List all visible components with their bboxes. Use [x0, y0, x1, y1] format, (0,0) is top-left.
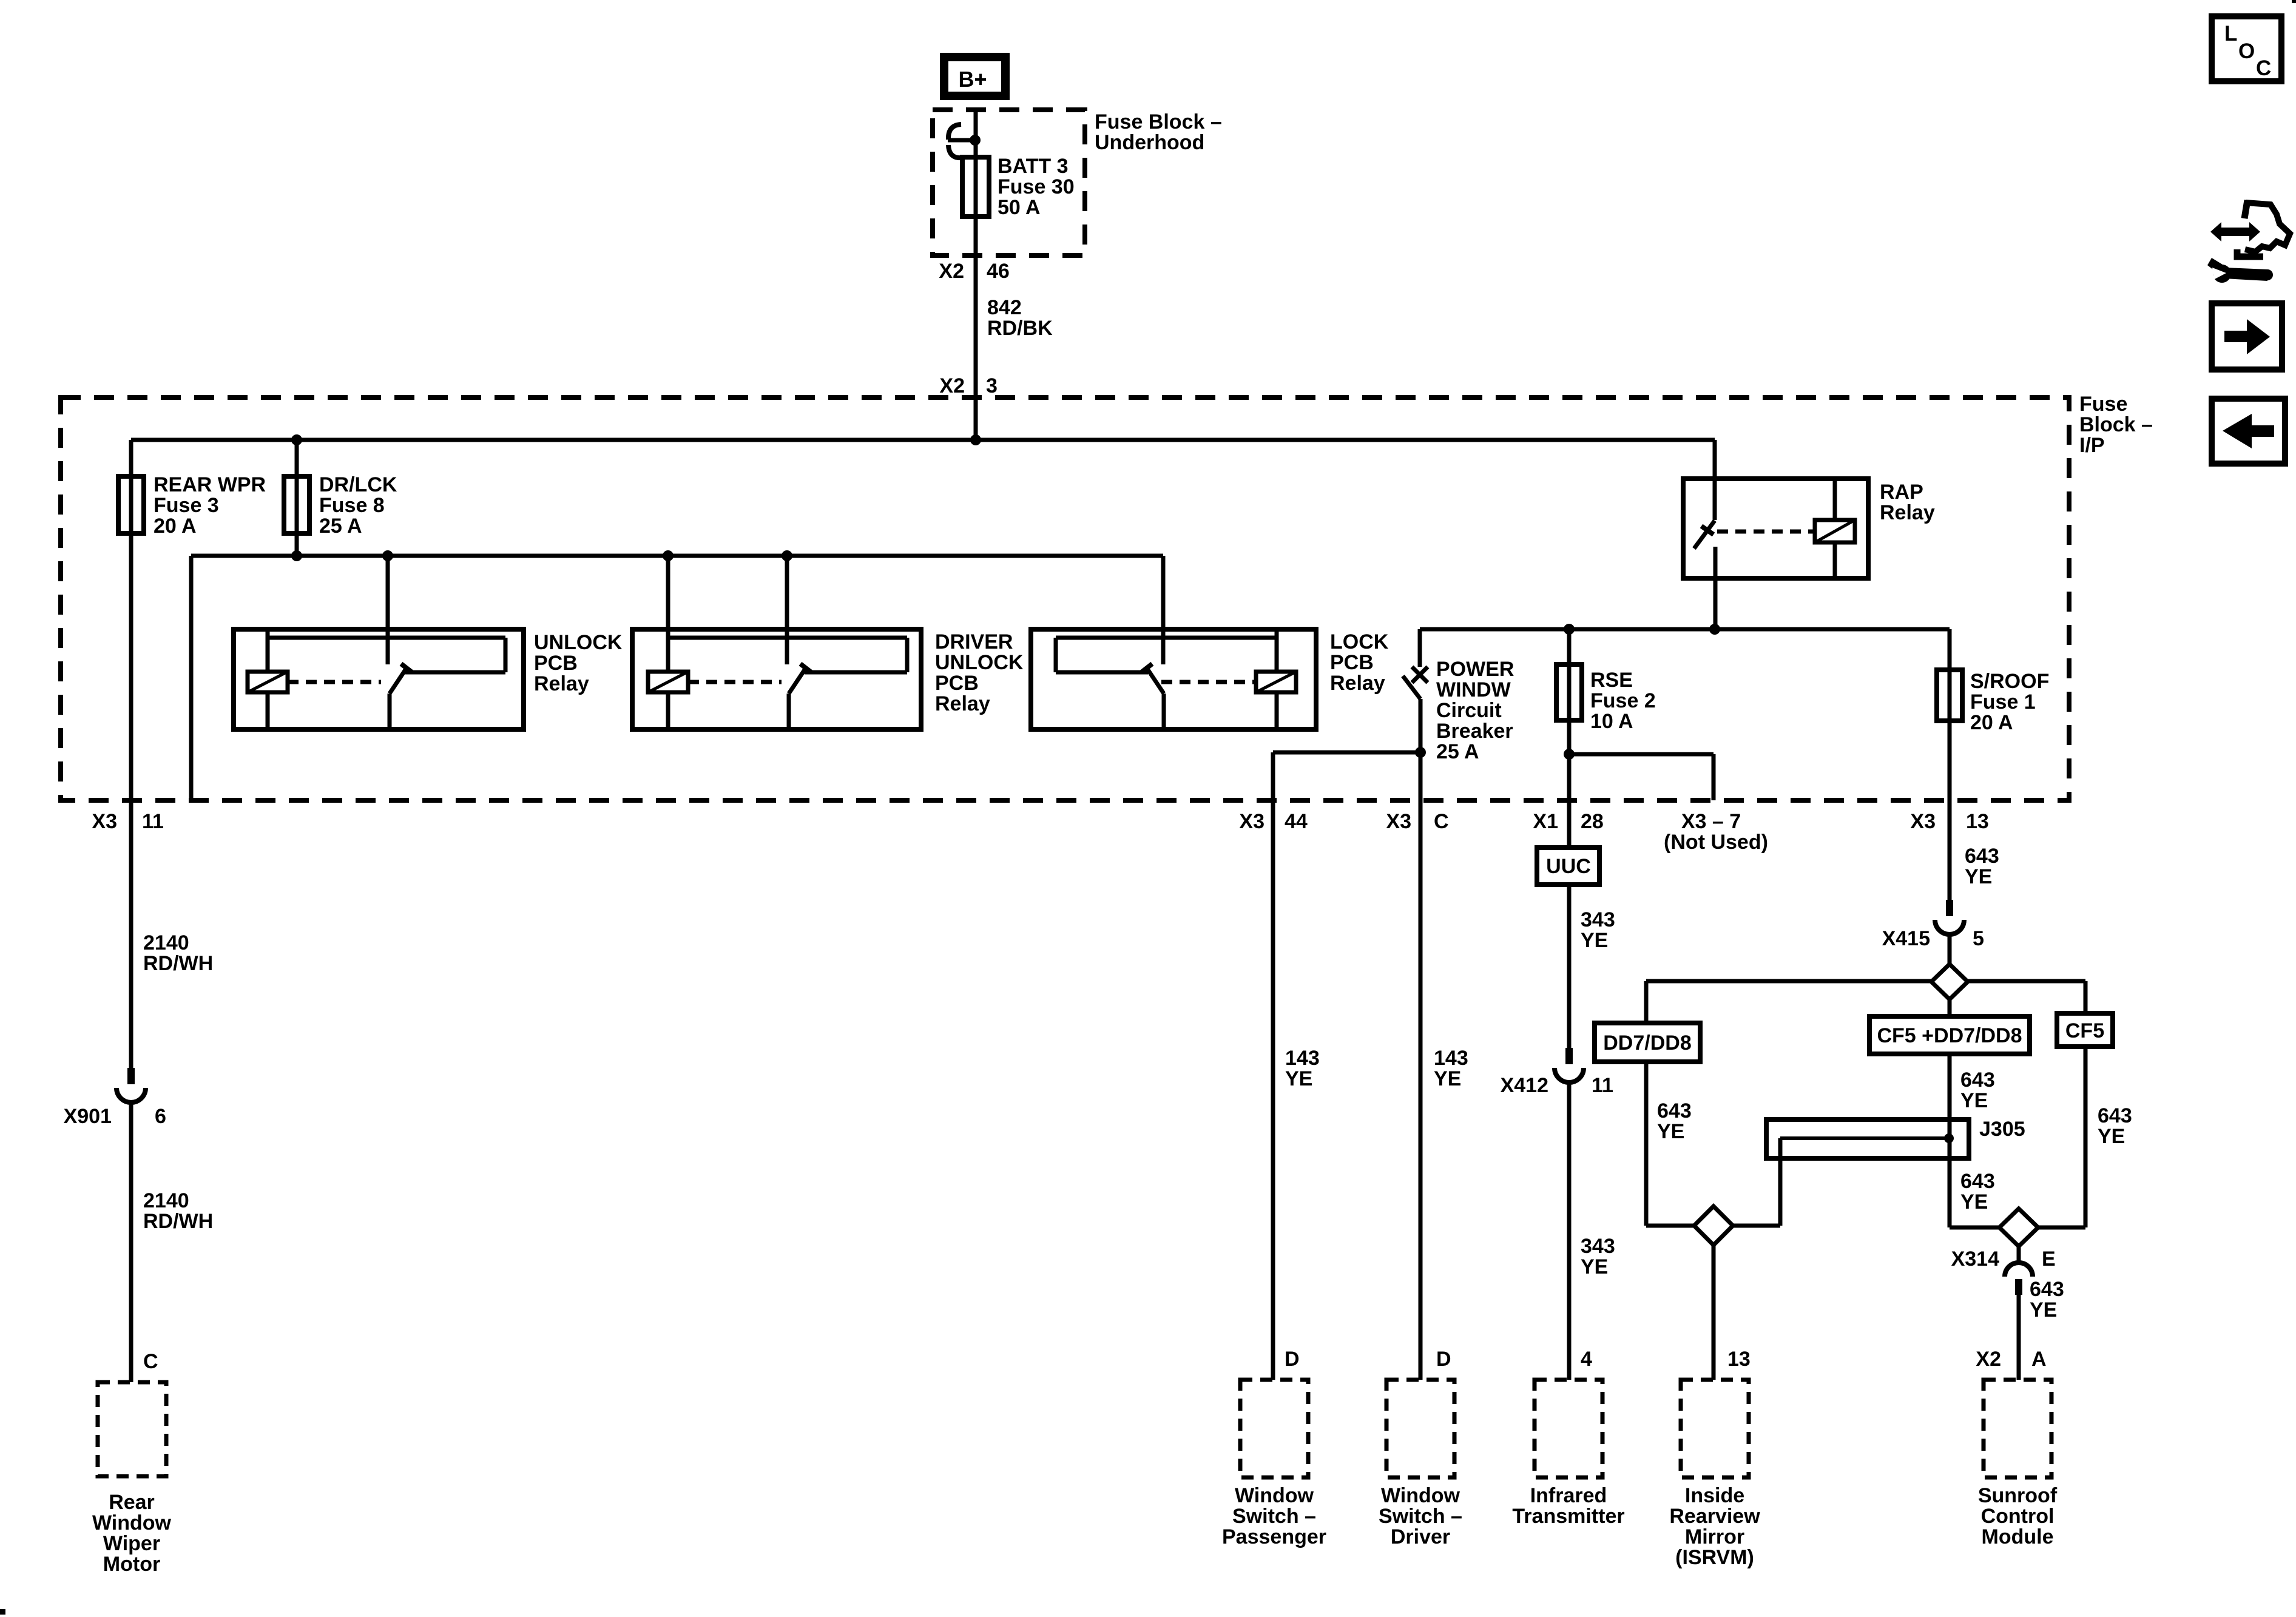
- svg-text:11: 11: [1592, 1074, 1613, 1097]
- svg-text:X3: X3: [1386, 810, 1411, 833]
- svg-text:Window: Window: [92, 1511, 172, 1534]
- svg-text:Fuse Block –: Fuse Block –: [1095, 110, 1222, 133]
- svg-text:UNLOCK: UNLOCK: [935, 651, 1024, 674]
- svg-text:Fuse 8: Fuse 8: [319, 494, 385, 517]
- svg-text:Motor: Motor: [103, 1553, 160, 1576]
- svg-text:Switch –: Switch –: [1232, 1505, 1316, 1528]
- svg-text:143: 143: [1285, 1047, 1320, 1070]
- svg-text:3: 3: [986, 374, 998, 397]
- svg-text:643: 643: [1657, 1099, 1692, 1122]
- svg-text:643: 643: [1960, 1170, 1995, 1193]
- svg-text:YE: YE: [2030, 1298, 2057, 1322]
- svg-text:13: 13: [1727, 1348, 1751, 1371]
- svg-text:Relay: Relay: [935, 692, 990, 715]
- svg-text:WINDW: WINDW: [1436, 678, 1511, 701]
- svg-text:BATT 3: BATT 3: [998, 155, 1068, 178]
- svg-text:Window: Window: [1381, 1484, 1460, 1507]
- svg-text:Fuse 1: Fuse 1: [1970, 690, 2036, 714]
- svg-text:X1: X1: [1533, 810, 1558, 833]
- svg-text:PCB: PCB: [935, 672, 979, 695]
- svg-text:UUC: UUC: [1546, 855, 1591, 878]
- svg-text:Wiper: Wiper: [103, 1532, 160, 1555]
- svg-text:Relay: Relay: [1330, 672, 1385, 695]
- svg-text:44: 44: [1285, 810, 1308, 833]
- svg-text:I/P: I/P: [2079, 434, 2105, 457]
- svg-text:5: 5: [1973, 927, 1984, 950]
- svg-text:E: E: [2042, 1247, 2056, 1271]
- svg-text:YE: YE: [1434, 1067, 1461, 1090]
- svg-text:Fuse 30: Fuse 30: [998, 175, 1075, 198]
- svg-text:Block –: Block –: [2079, 413, 2153, 436]
- svg-text:Window: Window: [1235, 1484, 1314, 1507]
- svg-text:X3: X3: [92, 810, 117, 833]
- svg-text:X412: X412: [1501, 1074, 1548, 1097]
- svg-text:X3: X3: [1910, 810, 1936, 833]
- svg-text:PCB: PCB: [1330, 651, 1374, 674]
- svg-text:L: L: [2224, 22, 2237, 46]
- svg-text:YE: YE: [1581, 1255, 1608, 1278]
- svg-text:X3: X3: [1239, 810, 1264, 833]
- svg-text:842: 842: [987, 296, 1022, 319]
- svg-text:RAP: RAP: [1880, 481, 1923, 504]
- svg-text:643: 643: [1965, 845, 1999, 868]
- svg-text:Driver: Driver: [1391, 1525, 1450, 1548]
- svg-text:343: 343: [1581, 908, 1615, 931]
- svg-text:10 A: 10 A: [1590, 710, 1633, 733]
- svg-text:O: O: [2238, 39, 2255, 63]
- svg-text:C: C: [143, 1350, 158, 1373]
- svg-text:143: 143: [1434, 1047, 1468, 1070]
- svg-text:2140: 2140: [143, 931, 189, 954]
- svg-text:J305: J305: [1979, 1118, 2025, 1141]
- svg-text:LOCK: LOCK: [1330, 630, 1389, 653]
- svg-text:Switch –: Switch –: [1379, 1505, 1462, 1528]
- svg-text:(Not Used): (Not Used): [1664, 831, 1768, 854]
- svg-text:RD/WH: RD/WH: [143, 952, 213, 975]
- svg-text:CF5: CF5: [2065, 1019, 2104, 1042]
- svg-text:A: A: [2031, 1348, 2047, 1371]
- svg-text:YE: YE: [1285, 1067, 1312, 1090]
- svg-text:DD7/DD8: DD7/DD8: [1603, 1031, 1691, 1055]
- svg-text:YE: YE: [1965, 865, 1992, 888]
- svg-text:Mirror: Mirror: [1685, 1525, 1744, 1548]
- svg-text:25 A: 25 A: [319, 515, 362, 538]
- svg-text:20 A: 20 A: [1970, 711, 2013, 734]
- svg-text:YE: YE: [1960, 1190, 1988, 1214]
- svg-text:D: D: [1436, 1348, 1451, 1371]
- svg-text:X2: X2: [939, 374, 965, 397]
- svg-text:Passenger: Passenger: [1222, 1525, 1326, 1548]
- svg-text:X415: X415: [1882, 927, 1930, 950]
- svg-text:DR/LCK: DR/LCK: [319, 473, 397, 496]
- svg-text:X901: X901: [64, 1105, 112, 1128]
- svg-text:Fuse 2: Fuse 2: [1590, 689, 1656, 712]
- svg-text:X314: X314: [1951, 1247, 1999, 1271]
- svg-text:Circuit: Circuit: [1436, 699, 1502, 722]
- svg-text:RD/BK: RD/BK: [987, 317, 1053, 340]
- svg-text:UNLOCK: UNLOCK: [534, 631, 623, 654]
- svg-text:YE: YE: [1581, 929, 1608, 952]
- svg-text:Rear: Rear: [109, 1491, 155, 1514]
- svg-text:C: C: [1434, 810, 1449, 833]
- svg-text:CF5 +DD7/DD8: CF5 +DD7/DD8: [1877, 1024, 2022, 1047]
- svg-text:Relay: Relay: [534, 672, 589, 695]
- svg-text:11: 11: [142, 810, 164, 833]
- svg-text:20 A: 20 A: [154, 515, 197, 538]
- svg-text:POWER: POWER: [1436, 658, 1514, 681]
- svg-text:Transmitter: Transmitter: [1512, 1505, 1624, 1528]
- svg-text:13: 13: [1966, 810, 1989, 833]
- svg-text:X2: X2: [939, 260, 964, 283]
- svg-text:DRIVER: DRIVER: [935, 630, 1013, 653]
- svg-text:Relay: Relay: [1880, 501, 1935, 524]
- svg-text:PCB: PCB: [534, 652, 578, 675]
- svg-text:S/ROOF: S/ROOF: [1970, 670, 2049, 693]
- svg-text:643: 643: [1960, 1068, 1995, 1092]
- svg-text:46: 46: [987, 260, 1010, 283]
- svg-text:4: 4: [1581, 1348, 1592, 1371]
- svg-text:RSE: RSE: [1590, 669, 1633, 692]
- svg-text:6: 6: [155, 1105, 166, 1128]
- svg-text:Fuse: Fuse: [2079, 393, 2127, 416]
- svg-text:Control: Control: [1981, 1505, 2055, 1528]
- svg-text:RD/WH: RD/WH: [143, 1210, 213, 1233]
- svg-text:643: 643: [2030, 1278, 2064, 1301]
- svg-text:28: 28: [1581, 810, 1604, 833]
- svg-text:YE: YE: [2098, 1125, 2125, 1148]
- svg-text:Sunroof: Sunroof: [1978, 1484, 2058, 1507]
- svg-text:YE: YE: [1960, 1089, 1988, 1112]
- svg-text:B+: B+: [958, 67, 987, 92]
- svg-text:50 A: 50 A: [998, 196, 1041, 219]
- svg-text:25 A: 25 A: [1436, 740, 1479, 763]
- svg-text:Inside: Inside: [1685, 1484, 1744, 1507]
- svg-text:2140: 2140: [143, 1189, 189, 1212]
- svg-text:X2: X2: [1976, 1348, 2001, 1371]
- svg-text:Underhood: Underhood: [1095, 131, 1204, 154]
- svg-text:643: 643: [2098, 1104, 2132, 1127]
- svg-text:Module: Module: [1982, 1525, 2054, 1548]
- svg-text:D: D: [1285, 1348, 1300, 1371]
- svg-text:Breaker: Breaker: [1436, 720, 1513, 743]
- svg-text:Rearview: Rearview: [1669, 1505, 1760, 1528]
- svg-text:X3 – 7: X3 – 7: [1681, 810, 1741, 833]
- svg-text:Infrared: Infrared: [1530, 1484, 1607, 1507]
- svg-text:Fuse 3: Fuse 3: [154, 494, 219, 517]
- svg-text:(ISRVM): (ISRVM): [1675, 1546, 1754, 1569]
- svg-text:C: C: [2256, 56, 2271, 80]
- svg-text:REAR WPR: REAR WPR: [154, 473, 266, 496]
- svg-text:YE: YE: [1657, 1120, 1684, 1143]
- svg-text:343: 343: [1581, 1235, 1615, 1258]
